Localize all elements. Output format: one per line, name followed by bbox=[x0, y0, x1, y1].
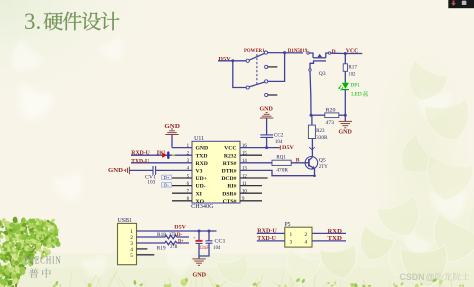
svg-text:3.: 3. bbox=[24, 9, 41, 34]
svg-text:D5V: D5V bbox=[174, 225, 186, 231]
svg-text:USB1: USB1 bbox=[118, 218, 133, 224]
svg-text:CTS#: CTS# bbox=[223, 199, 237, 205]
svg-text:D+: D+ bbox=[164, 175, 170, 180]
svg-text:473: 473 bbox=[326, 120, 335, 126]
svg-text:TXD: TXD bbox=[328, 236, 343, 242]
svg-text:5: 5 bbox=[130, 253, 133, 259]
svg-text:+: + bbox=[193, 235, 196, 240]
svg-text:RXD-U: RXD-U bbox=[257, 229, 277, 235]
svg-text:RXD: RXD bbox=[328, 229, 343, 235]
svg-text:RQ1: RQ1 bbox=[276, 155, 286, 161]
svg-text:CSDN: CSDN bbox=[400, 272, 425, 282]
svg-text:GND: GND bbox=[260, 106, 274, 112]
svg-text:DSR#: DSR# bbox=[222, 191, 236, 197]
svg-text:RXD-U: RXD-U bbox=[131, 150, 150, 156]
svg-text:R19: R19 bbox=[157, 245, 166, 251]
svg-text:U11: U11 bbox=[194, 136, 204, 142]
svg-text:Q5: Q5 bbox=[319, 158, 326, 164]
svg-text:D1N5819: D1N5819 bbox=[288, 48, 308, 54]
svg-text:XO: XO bbox=[196, 199, 205, 205]
svg-text:104: 104 bbox=[213, 245, 220, 251]
svg-text:DCD#: DCD# bbox=[221, 176, 236, 182]
svg-text:P5: P5 bbox=[285, 222, 291, 228]
svg-text:V3: V3 bbox=[196, 169, 203, 175]
svg-text:D: D bbox=[332, 49, 336, 55]
svg-text:R17: R17 bbox=[348, 64, 357, 70]
svg-text:GND: GND bbox=[164, 124, 180, 130]
svg-text:27R: 27R bbox=[170, 244, 178, 250]
svg-text:LED: LED bbox=[351, 92, 362, 98]
svg-text:RI#: RI# bbox=[227, 184, 236, 190]
svg-text:4: 4 bbox=[305, 240, 308, 246]
svg-text:D5V: D5V bbox=[282, 145, 294, 151]
svg-text:Q3: Q3 bbox=[319, 71, 326, 77]
svg-text:PRECHIN: PRECHIN bbox=[24, 256, 62, 267]
svg-text:1: 1 bbox=[290, 232, 293, 238]
svg-text:TXD: TXD bbox=[196, 153, 208, 159]
svg-text:GND: GND bbox=[196, 146, 209, 152]
svg-text:2: 2 bbox=[305, 232, 308, 238]
svg-text:R232: R232 bbox=[224, 153, 237, 159]
svg-text:3: 3 bbox=[290, 240, 293, 246]
svg-text:VCC: VCC bbox=[224, 146, 236, 152]
svg-text:104: 104 bbox=[275, 139, 283, 145]
svg-text:DTR#: DTR# bbox=[222, 169, 237, 175]
svg-text:DP1: DP1 bbox=[350, 83, 360, 89]
svg-text:UD-: UD- bbox=[196, 184, 206, 190]
svg-text:D-: D- bbox=[164, 183, 169, 188]
svg-text:CC1: CC1 bbox=[215, 238, 226, 244]
svg-text:102: 102 bbox=[348, 71, 355, 77]
svg-text:R18: R18 bbox=[157, 232, 166, 238]
svg-text:D-: D- bbox=[177, 232, 183, 238]
svg-text:RTS#: RTS# bbox=[223, 161, 237, 167]
svg-text:CH340G: CH340G bbox=[191, 204, 214, 210]
svg-text:22uF: 22uF bbox=[199, 245, 209, 251]
svg-text:330R: 330R bbox=[316, 135, 328, 141]
svg-text:POWER1: POWER1 bbox=[244, 48, 265, 54]
svg-text:2TY: 2TY bbox=[319, 164, 328, 170]
svg-text:TXD-U: TXD-U bbox=[131, 159, 149, 165]
svg-text:VCC: VCC bbox=[346, 49, 359, 55]
svg-text:103: 103 bbox=[147, 179, 155, 185]
svg-text:TXD-U: TXD-U bbox=[257, 236, 276, 242]
svg-text:@: @ bbox=[426, 272, 435, 282]
svg-text:D+: D+ bbox=[178, 238, 184, 244]
svg-text:RXD: RXD bbox=[196, 161, 208, 167]
svg-text:R20: R20 bbox=[326, 108, 336, 114]
svg-text:27R: 27R bbox=[169, 232, 177, 238]
svg-text:GND: GND bbox=[339, 130, 353, 136]
svg-text:R23: R23 bbox=[316, 128, 325, 134]
svg-text:B: B bbox=[296, 158, 300, 164]
svg-text:CC2: CC2 bbox=[274, 132, 284, 138]
svg-text:GND: GND bbox=[193, 272, 207, 278]
svg-text:470R: 470R bbox=[276, 168, 288, 174]
svg-text:XI: XI bbox=[196, 191, 203, 197]
svg-text:UD+: UD+ bbox=[196, 176, 207, 182]
svg-text:GND: GND bbox=[108, 168, 124, 174]
